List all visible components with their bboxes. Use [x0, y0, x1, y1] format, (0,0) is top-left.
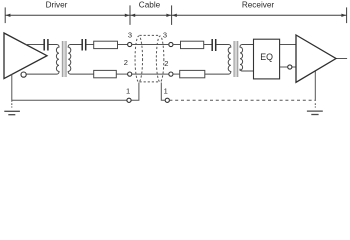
svg-text:Receiver: Receiver	[242, 1, 275, 10]
svg-text:EQ: EQ	[260, 52, 273, 62]
svg-text:1: 1	[126, 87, 130, 96]
svg-text:1: 1	[164, 87, 168, 96]
svg-text:Cable: Cable	[139, 1, 161, 10]
svg-text:2: 2	[124, 58, 128, 67]
svg-text:2: 2	[164, 59, 168, 68]
svg-text:3: 3	[163, 31, 167, 40]
svg-text:Driver: Driver	[46, 1, 68, 10]
svg-text:3: 3	[128, 30, 132, 39]
